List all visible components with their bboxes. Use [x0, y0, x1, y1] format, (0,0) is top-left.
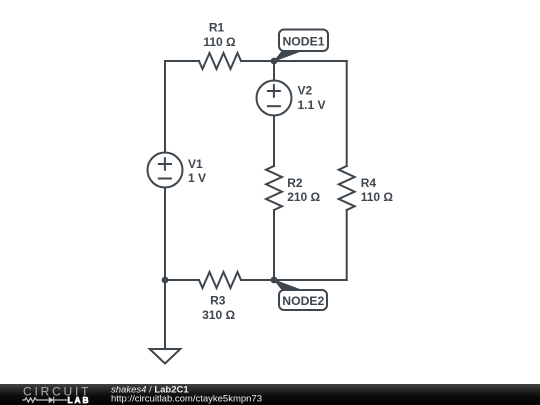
wire right vertical upper	[346, 61, 348, 166]
wire middle branch top	[273, 61, 275, 81]
svg-text:R1: R1	[209, 21, 225, 35]
svg-text:R3: R3	[210, 294, 226, 308]
svg-text:NODE2: NODE2	[282, 294, 324, 308]
svg-text:1.1 V: 1.1 V	[298, 98, 326, 112]
svg-text:110 Ω: 110 Ω	[203, 35, 236, 49]
CircuitLab logo squiggle resistor and diode	[22, 397, 67, 404]
voltage source V1	[148, 153, 183, 188]
footer bar	[0, 384, 540, 405]
wire bottom-right segment	[241, 279, 347, 281]
svg-text:V1: V1	[188, 157, 203, 171]
svg-text:210 Ω: 210 Ω	[287, 190, 320, 204]
wire right vertical lower	[346, 210, 348, 280]
wire left vertical upper	[164, 61, 166, 153]
CircuitLab logo diode triangle	[49, 397, 54, 404]
wire top-right horizontal segment	[241, 60, 347, 62]
svg-text:V2: V2	[298, 84, 313, 98]
junction dot at ground branch	[162, 277, 169, 284]
resistor R1	[199, 53, 241, 69]
wire left vertical lower	[164, 188, 166, 281]
wire middle branch between V2 and R2	[273, 116, 275, 167]
node NODE1 callout box	[279, 30, 328, 52]
voltage source V2	[257, 81, 292, 116]
svg-text:http://circuitlab.com/ctayke5k: http://circuitlab.com/ctayke5kmpn73	[111, 394, 262, 405]
node NODE2 callout box	[279, 290, 327, 310]
wire middle branch bottom	[273, 210, 275, 280]
node NODE1 callout tail	[273, 51, 301, 63]
svg-text:110 Ω: 110 Ω	[361, 190, 394, 204]
wire top-left horizontal segment	[165, 60, 199, 62]
node NODE2 callout tail	[273, 279, 301, 291]
wire bottom-left segment	[165, 279, 199, 281]
V2 plus sign	[268, 85, 280, 97]
svg-text:NODE1: NODE1	[283, 35, 325, 49]
V1 plus sign	[159, 158, 171, 170]
resistor R2	[266, 166, 282, 210]
resistor R3	[199, 272, 241, 288]
svg-text:R4: R4	[361, 176, 377, 190]
ground	[150, 349, 181, 364]
wire ground stem	[164, 280, 166, 349]
svg-text:1 V: 1 V	[188, 171, 206, 185]
svg-text:LAB: LAB	[68, 395, 91, 405]
node junction NODE2 dot	[271, 277, 278, 284]
resistor R4	[339, 166, 355, 210]
V1 minus sign	[159, 178, 171, 180]
svg-text:310 Ω: 310 Ω	[202, 308, 235, 322]
node junction NODE1 dot	[271, 58, 278, 65]
V2 minus sign	[268, 105, 280, 107]
svg-text:R2: R2	[287, 176, 303, 190]
